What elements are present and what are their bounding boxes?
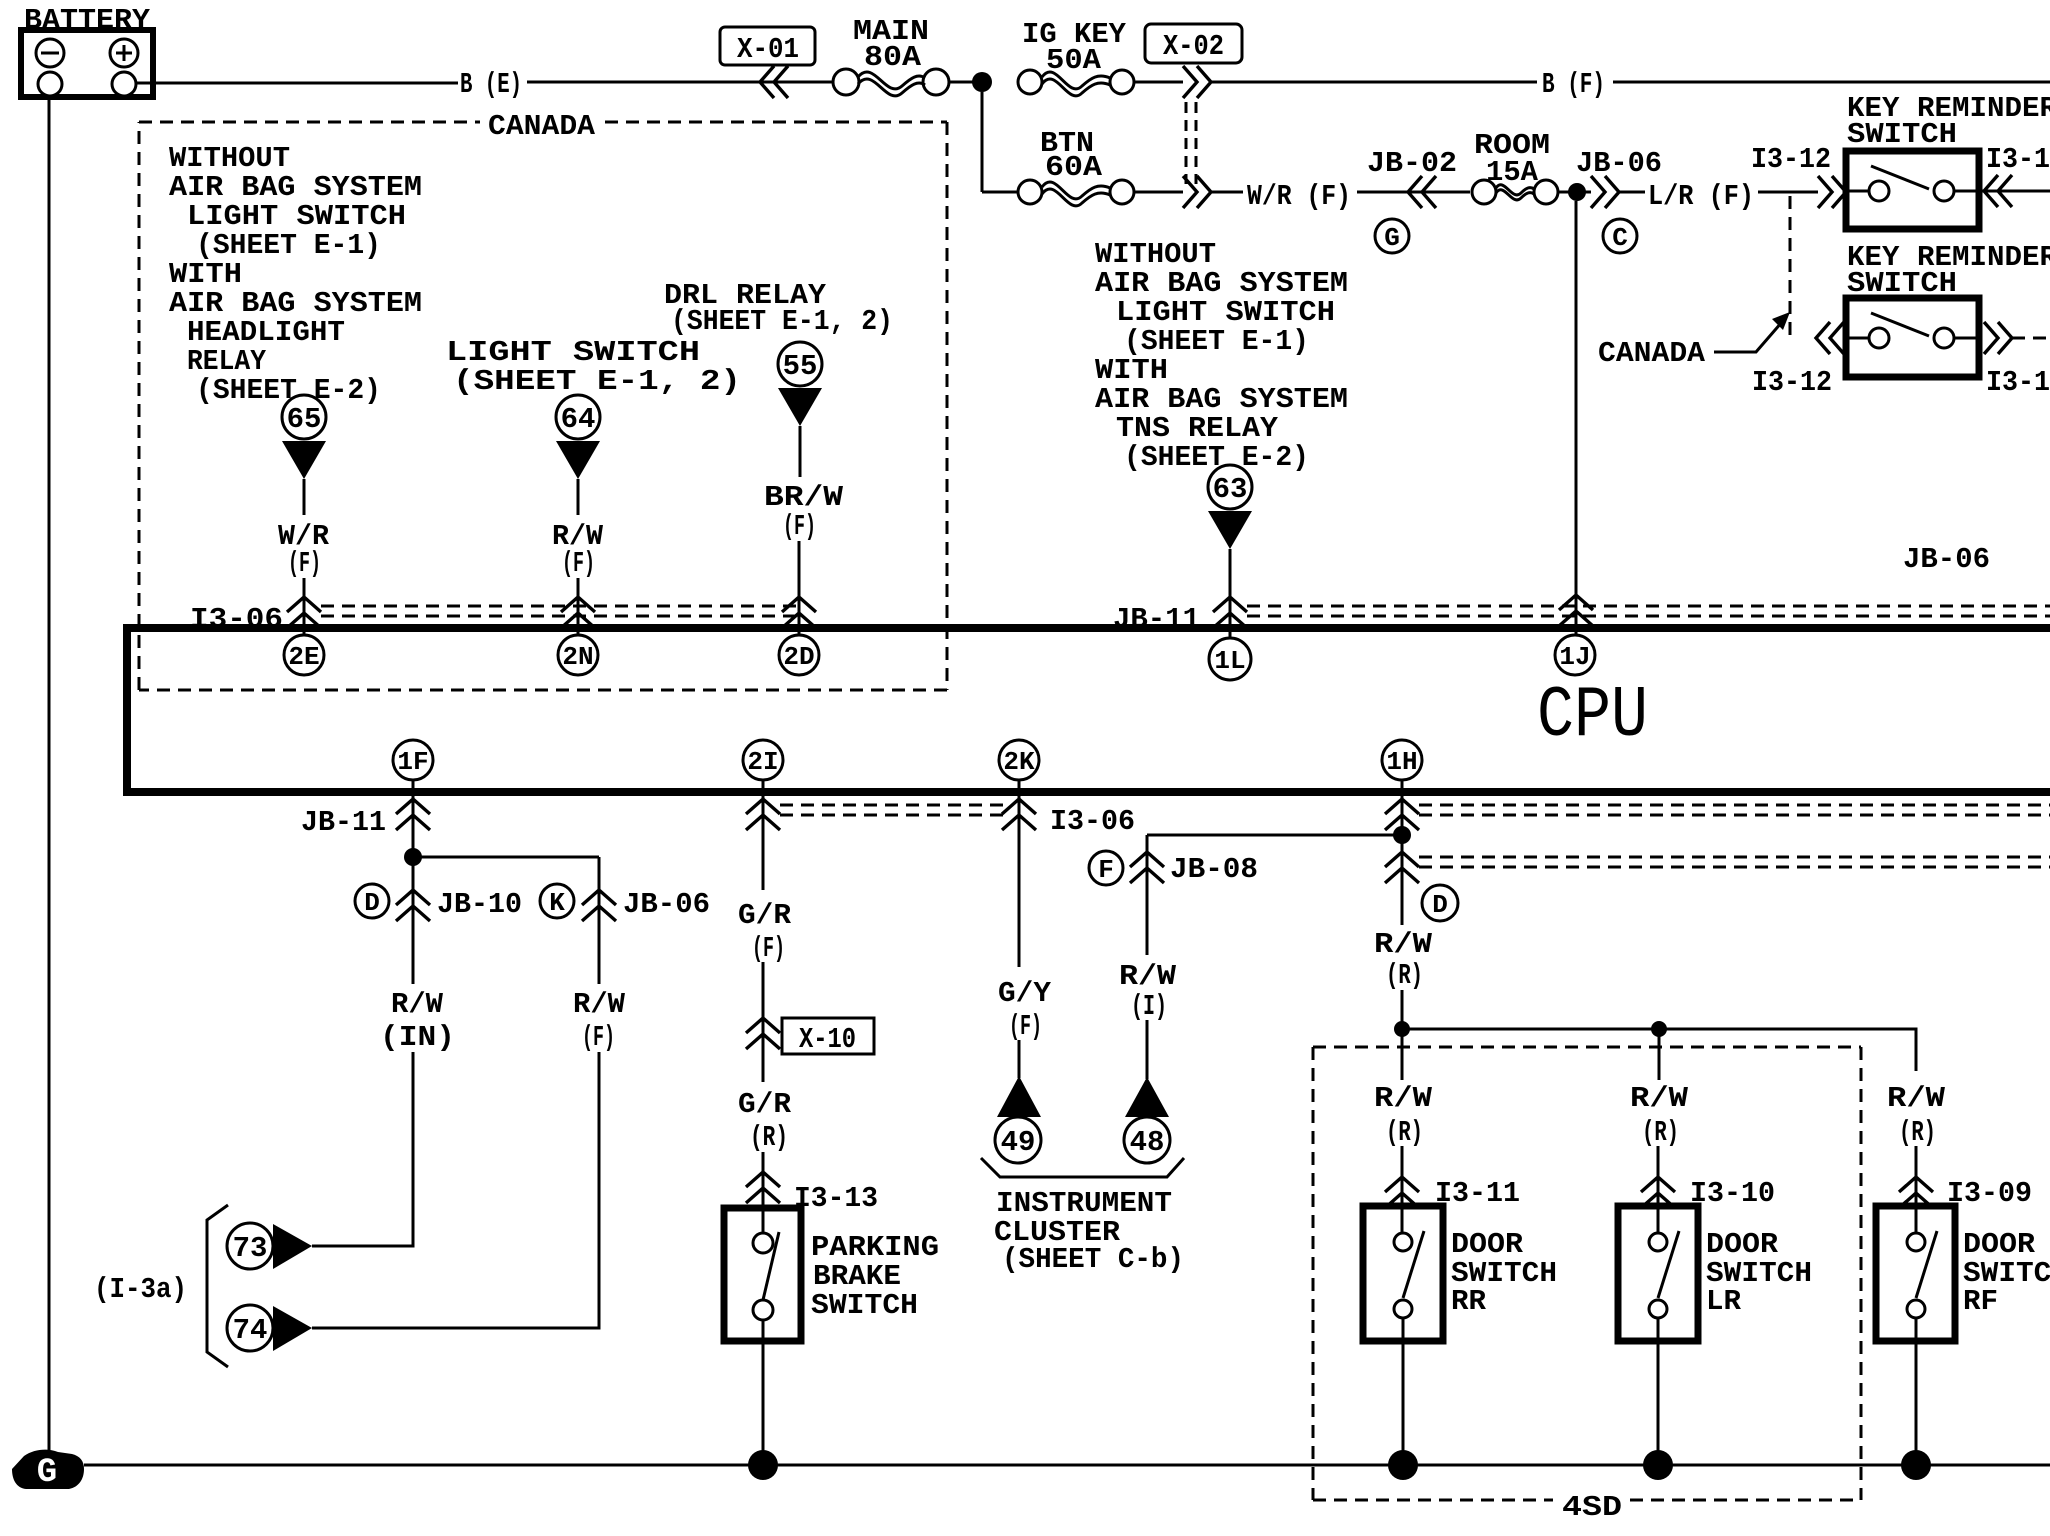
wire door switch bus: [1402, 1029, 1916, 1071]
wire W/R to JB-02: [1357, 191, 1470, 194]
switch KEY REMINDER SWITCH (USA): [1846, 92, 2050, 229]
svg-text:1F: 1F: [397, 747, 428, 777]
label (I-3a) with bracket: [94, 1205, 228, 1367]
node R/W (R) 1H: [1374, 928, 1433, 992]
arrow 64 to light switch: [556, 395, 600, 515]
arrow 73: [227, 1223, 312, 1269]
arrow 63 to TNS relay: [1208, 465, 1252, 638]
svg-text:49: 49: [1001, 1126, 1036, 1159]
svg-text:JB-10: JB-10: [437, 888, 522, 921]
component INSTRUMENT CLUSTER: [981, 1158, 1184, 1276]
svg-text:(R): (R): [1386, 1116, 1423, 1149]
svg-text:(F): (F): [783, 510, 816, 543]
wire col3 to CPU 2D: [798, 541, 801, 635]
svg-text:JB-11: JB-11: [301, 806, 386, 839]
svg-text:2N: 2N: [562, 642, 593, 672]
connector X-02: [1145, 24, 1242, 208]
wire B(E) to MAIN fuse: [527, 81, 833, 84]
fuse IG KEY 50A: [1018, 18, 1134, 96]
svg-text:I3-13: I3-13: [794, 1182, 878, 1215]
node G/Y (F): [998, 977, 1052, 1043]
connector chevron 1H below CPU: [1385, 799, 1419, 830]
svg-text:R/W: R/W: [1630, 1082, 1689, 1115]
connector I3-16 right of key reminder: [1984, 143, 2050, 207]
node G/R (R): [738, 1088, 792, 1154]
fuse BTN 60A: [1018, 127, 1134, 206]
svg-text:63: 63: [1213, 473, 1248, 506]
connector I3-16 canada right: [1984, 322, 2050, 399]
junction ground RR: [1388, 1450, 1418, 1480]
svg-text:(I-3a): (I-3a): [94, 1273, 187, 1306]
connector JB-08 pin F: [1089, 851, 1258, 886]
wire R/W (I) down to 48: [1146, 1020, 1149, 1079]
svg-text:(F): (F): [582, 1021, 615, 1054]
svg-text:65: 65: [287, 403, 322, 436]
connector I3-12 canada left: [1752, 322, 1844, 399]
svg-text:C: C: [1612, 223, 1628, 253]
wire branch right to JB-06 column: [413, 856, 599, 859]
svg-text:(F): (F): [562, 547, 595, 580]
node R/W (F) col2: [552, 520, 604, 580]
note DRL relay col3: [664, 279, 893, 338]
svg-text:73: 73: [233, 1232, 268, 1265]
wire G/Y down to 49: [1018, 1040, 1021, 1078]
wire BTN fuse to W/R label: [1134, 191, 1183, 194]
svg-text:1L: 1L: [1214, 646, 1245, 676]
wire junction down to BTN branch: [981, 92, 984, 192]
wire R/W down to door bus: [1401, 990, 1404, 1029]
dashed box 4SD: [1313, 1047, 1861, 1524]
junction ground LR: [1643, 1450, 1673, 1480]
wire LR switch to ground bus: [1657, 1318, 1660, 1465]
svg-text:(R): (R): [1386, 959, 1423, 992]
switch PARKING BRAKE SWITCH: [724, 1208, 939, 1341]
dashed box CANADA: [139, 110, 947, 690]
svg-text:(SHEET E-1, 2): (SHEET E-1, 2): [453, 365, 741, 398]
connector I3-11: [1385, 1177, 1520, 1210]
wire JB-06 to L/R label: [1619, 191, 1645, 194]
CPU box: [127, 628, 2050, 792]
svg-text:CANADA: CANADA: [488, 110, 596, 143]
dashed connector line 2I to 2K: [780, 805, 1005, 815]
wire battery negative to ground: [48, 96, 51, 1458]
pin 2D: [779, 635, 819, 675]
svg-text:R/W: R/W: [391, 988, 444, 1021]
wire IG KEY fuse to X-02: [1134, 81, 1183, 84]
connector I3-12 left: [1751, 143, 1846, 208]
junction room fuse output: [1568, 183, 1586, 201]
note without/with air bag headlight relay: [169, 142, 422, 407]
svg-text:W/R (F): W/R (F): [1247, 180, 1351, 213]
svg-text:(SHEET C-b): (SHEET C-b): [1002, 1243, 1184, 1276]
svg-text:1H: 1H: [1386, 747, 1417, 777]
switch DOOR SWITCH RF: [1876, 1206, 2050, 1341]
pin 1H: [1382, 740, 1422, 780]
svg-text:60A: 60A: [1045, 151, 1103, 184]
wire G/R (F) down: [762, 962, 765, 1082]
junction ground RF: [1901, 1450, 1931, 1480]
wire col2 to CPU 2N: [577, 578, 580, 635]
svg-text:(R): (R): [1899, 1116, 1936, 1149]
connector chevron 2N: [561, 597, 595, 628]
node R/W (R) RR: [1374, 1082, 1433, 1149]
connector chevron 1H second: [1385, 852, 1419, 883]
svg-text:JB-06: JB-06: [1576, 147, 1662, 180]
svg-text:X-10: X-10: [799, 1023, 856, 1056]
svg-text:I3-09: I3-09: [1947, 1177, 2032, 1210]
switch DOOR SWITCH LR: [1618, 1206, 1812, 1341]
svg-text:B (F): B (F): [1542, 68, 1605, 101]
svg-text:I3-12: I3-12: [1752, 366, 1832, 399]
svg-text:55: 55: [783, 350, 818, 383]
svg-text:R/W: R/W: [1887, 1082, 1946, 1115]
wire RF switch to ground bus: [1915, 1318, 1918, 1465]
svg-text:JB-06: JB-06: [623, 888, 710, 921]
connector I3-13: [746, 1172, 878, 1215]
wire R/W (F) down to 74: [312, 1052, 599, 1328]
svg-text:I3-12: I3-12: [1986, 366, 2050, 399]
dashed connector line JB-11/JB-06 top: [1247, 606, 2050, 616]
note light switch col2: [446, 336, 741, 398]
connector JB-06 pin K: [540, 884, 710, 921]
note without/with air bag TNS relay: [1095, 238, 1348, 474]
dashed connector line 1H lower: [1419, 857, 2050, 867]
svg-text:RF: RF: [1963, 1285, 1998, 1318]
node BR/W (F) col3: [764, 481, 844, 543]
junction B(E) split: [972, 72, 992, 92]
fuse ROOM 15A: [1472, 129, 1558, 204]
svg-text:B (E): B (E): [460, 68, 522, 101]
pin 2I: [743, 740, 783, 780]
svg-text:G: G: [1384, 223, 1400, 253]
node R/W (IN): [380, 988, 455, 1054]
svg-text:L/R (F): L/R (F): [1648, 180, 1754, 213]
connector JB-11 below 1F: [301, 799, 430, 839]
svg-text:G/R: G/R: [738, 899, 792, 932]
wire RF column: [1915, 1146, 1918, 1234]
fuse MAIN 80A: [833, 15, 949, 96]
svg-text:LR: LR: [1706, 1285, 1742, 1318]
wire JB-06 column down: [598, 857, 601, 984]
junction 1H split to JB-08: [1393, 826, 1411, 844]
pin 1J: [1555, 635, 1595, 675]
svg-text:R/W: R/W: [1119, 960, 1177, 993]
connector chevron 2K below CPU: [1002, 799, 1036, 830]
svg-text:JB-06: JB-06: [1903, 543, 1990, 576]
svg-text:80A: 80A: [864, 41, 922, 74]
battery BATTERY: [21, 4, 153, 97]
wire room junction down to CPU 1J: [1575, 201, 1578, 635]
connector I3-10: [1641, 1177, 1775, 1210]
svg-text:64: 64: [561, 403, 596, 436]
svg-text:X-02: X-02: [1163, 30, 1224, 63]
wire BTN branch to fuse: [982, 191, 1019, 194]
wire parking brake to ground bus: [762, 1320, 765, 1465]
svg-text:CANADA: CANADA: [1598, 337, 1706, 370]
svg-text:G: G: [37, 1454, 57, 1492]
svg-text:F: F: [1098, 855, 1114, 885]
svg-text:JB-02: JB-02: [1367, 147, 1457, 180]
connector chevron 1L: [1213, 597, 1247, 628]
dashed connector line I3-06 top: [321, 606, 797, 616]
wire 2K down: [1018, 780, 1021, 967]
connector chevron 2D: [782, 597, 816, 628]
dashed connector line 1H upper: [1419, 805, 2050, 815]
svg-text:(SHEET E-1, 2): (SHEET E-1, 2): [671, 305, 893, 338]
connector JB-02 pin G: [1367, 147, 1457, 253]
svg-text:(F): (F): [288, 547, 321, 580]
svg-text:I3-06: I3-06: [1050, 805, 1135, 838]
wire branch left to JB-08 column: [1147, 834, 1402, 837]
wire RR switch to ground bus: [1402, 1318, 1405, 1465]
switch KEY REMINDER SWITCH (CANADA): [1846, 241, 2050, 377]
pin 2E: [284, 635, 324, 675]
connector chevron 2I below CPU: [746, 799, 780, 830]
arrow 65 to headlight relay: [282, 395, 326, 515]
svg-text:I3-10: I3-10: [1690, 1177, 1775, 1210]
wire G/R (R) down to parking brake switch: [762, 1152, 765, 1235]
wire 1F down: [412, 780, 415, 984]
svg-text:R/W: R/W: [1374, 928, 1433, 961]
junction 1F split: [404, 848, 422, 866]
arrow 55 to DRL relay: [778, 342, 822, 477]
svg-text:X-01: X-01: [737, 33, 799, 66]
svg-text:2I: 2I: [747, 747, 778, 777]
connector X-10: [746, 1018, 874, 1056]
svg-text:I3-12: I3-12: [1986, 143, 2050, 176]
connector JB-10 pin D: [355, 884, 522, 921]
svg-text:JB-08: JB-08: [1170, 853, 1258, 886]
svg-text:2E: 2E: [288, 642, 319, 672]
wire ground bus bottom: [84, 1464, 2050, 1467]
svg-text:R/W: R/W: [1374, 1082, 1433, 1115]
svg-text:G/R: G/R: [738, 1088, 792, 1121]
svg-text:(I): (I): [1131, 990, 1167, 1023]
wire 2I down: [762, 780, 765, 890]
pin 1F: [393, 740, 433, 780]
svg-text:4SD: 4SD: [1562, 1491, 1622, 1524]
wire LR column: [1658, 1033, 1659, 1234]
wire B(F) to right edge: [1613, 81, 2050, 84]
node R/W (R) RF: [1887, 1082, 1946, 1149]
svg-text:D: D: [364, 888, 380, 918]
wire R/W (IN) down to 73: [312, 1052, 413, 1246]
svg-text:74: 74: [233, 1314, 268, 1347]
svg-text:48: 48: [1130, 1126, 1165, 1159]
svg-text:CPU: CPU: [1537, 675, 1648, 757]
svg-text:D: D: [1432, 890, 1448, 920]
pin D right of 1H: [1422, 885, 1458, 921]
svg-text:2K: 2K: [1003, 747, 1035, 777]
svg-text:(IN): (IN): [380, 1021, 455, 1054]
wire RR column: [1401, 1033, 1404, 1234]
connector chevron 1J: [1559, 595, 1593, 626]
svg-text:K: K: [549, 888, 565, 918]
node R/W (F) col JB-06: [573, 988, 626, 1054]
svg-text:SWITCH: SWITCH: [1847, 118, 1957, 151]
svg-text:(F): (F): [1009, 1010, 1042, 1043]
node W/R (F) col1: [278, 520, 330, 580]
pin 2N: [558, 635, 598, 675]
node G/R (F): [738, 899, 792, 965]
dashed wire canada branch vertical: [1789, 196, 1792, 338]
svg-text:R/W: R/W: [573, 988, 626, 1021]
node R/W (R) LR: [1630, 1082, 1689, 1149]
svg-text:G/Y: G/Y: [998, 977, 1052, 1010]
connector X-01: [720, 27, 815, 98]
label CANADA with arrow: [1598, 312, 1790, 370]
wire col1 to CPU 2E: [303, 578, 306, 635]
svg-text:I3-12: I3-12: [1751, 143, 1831, 176]
svg-text:RR: RR: [1451, 1285, 1487, 1318]
wire JB-08 column down: [1146, 835, 1149, 955]
connector JB-06 pin C: [1576, 147, 1662, 253]
svg-text:2D: 2D: [783, 642, 814, 672]
svg-text:(R): (R): [1642, 1116, 1679, 1149]
connector chevron 2E: [287, 597, 321, 628]
wire X-02 to B(F): [1211, 81, 1537, 84]
switch DOOR SWITCH RR: [1363, 1206, 1557, 1341]
ground symbol G: [12, 1450, 84, 1492]
wire B(E) battery to X-01: [136, 82, 458, 85]
pin 1L: [1209, 638, 1251, 680]
svg-text:I3-11: I3-11: [1435, 1177, 1520, 1210]
svg-text:1J: 1J: [1559, 642, 1590, 672]
wire 1H down: [1401, 780, 1404, 925]
wire L/R to I3-12: [1758, 191, 1818, 194]
node R/W (I): [1119, 960, 1177, 1023]
svg-text:(R): (R): [750, 1121, 788, 1154]
arrow 49: [995, 1076, 1041, 1163]
svg-text:(F): (F): [752, 932, 785, 965]
svg-text:SWITCH: SWITCH: [811, 1289, 918, 1322]
wire MAIN fuse to junction: [949, 81, 991, 84]
junction door bus at LR: [1651, 1021, 1667, 1037]
arrow 74: [227, 1305, 312, 1351]
pin 2K: [999, 740, 1039, 780]
connector I3-09: [1899, 1177, 2032, 1210]
junction ground parking brake: [748, 1450, 778, 1480]
junction door bus at RR: [1394, 1021, 1410, 1037]
arrow 48: [1124, 1077, 1170, 1163]
